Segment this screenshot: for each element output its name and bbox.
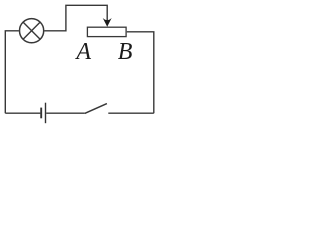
rheostat R1 body bbox=[87, 27, 126, 36]
wire switch right contact to bottom right corner bbox=[108, 112, 154, 114]
wire left side: top stub, left vertical bbox=[5, 31, 19, 113]
battery cell: long plate (positive) bbox=[45, 103, 47, 124]
svg-text:B: B bbox=[118, 39, 133, 65]
switch S1 blade (open) bbox=[85, 104, 107, 114]
svg-text:A: A bbox=[74, 39, 91, 65]
battery cell: short plate (negative) bbox=[40, 108, 42, 119]
lamp cross bbox=[23, 22, 40, 39]
wire battery to switch pivot bbox=[46, 112, 84, 114]
wiper arrowhead bbox=[103, 18, 112, 27]
wire lamp to wiper arrow bbox=[44, 5, 107, 31]
lamp L1 bbox=[20, 19, 44, 43]
wire rheostat right end to right side and bottom corner bbox=[127, 32, 154, 113]
wire bottom left to battery bbox=[5, 112, 40, 114]
